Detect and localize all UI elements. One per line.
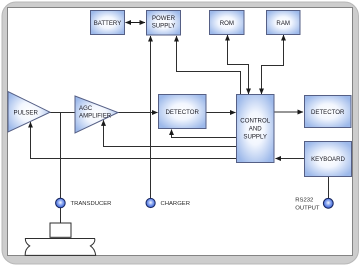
detector U6 (right) [305, 96, 352, 128]
svg-text:RAM: RAM [276, 20, 290, 27]
svg-text:TRANSDUCER: TRANSDUCER [71, 201, 112, 207]
charger connector J2 (ball) [146, 198, 190, 207]
wire transducer tap [60, 113, 62, 199]
svg-text:RS232: RS232 [295, 197, 313, 203]
wire ram-control [262, 35, 284, 94]
wire detector-control [206, 112, 236, 114]
svg-text:KEYBOARD: KEYBOARD [311, 156, 345, 163]
svg-text:AND: AND [249, 125, 262, 132]
wire control-pulser supply [31, 122, 237, 158]
svg-text:AMPLIFIER: AMPLIFIER [79, 112, 112, 119]
detector U4 (left) [159, 95, 207, 129]
wire keyboard-rs232 [328, 177, 330, 199]
wire powersupply-control [177, 36, 241, 95]
pulser amplifier A1 (triangle) [8, 92, 50, 133]
rs232 connector J3 (ball) [295, 197, 333, 211]
wire powersupply-charger [150, 36, 152, 198]
svg-text:AGC: AGC [79, 105, 93, 112]
control and supply U5 [237, 95, 275, 163]
power supply U1 [147, 11, 181, 36]
svg-text:PULSER: PULSER [14, 110, 39, 117]
wire control-detector2 [274, 111, 303, 113]
wire battery-powersupply (bidirectional) [126, 22, 146, 24]
test material block (with break edges) [25, 239, 96, 256]
svg-text:BATTERY: BATTERY [94, 20, 122, 27]
svg-text:OUTPUT: OUTPUT [295, 205, 320, 211]
wire control-agc supply [104, 120, 237, 146]
ram U3 [267, 11, 301, 35]
agc amplifier A2 (triangle) [75, 96, 118, 133]
svg-text:SUPPLY: SUPPLY [152, 22, 176, 29]
wire pulser-agc [50, 112, 76, 114]
wire transducer-probe [60, 208, 62, 223]
svg-text:ROM: ROM [220, 20, 234, 27]
svg-text:DETECTOR: DETECTOR [165, 109, 199, 116]
svg-text:POWER: POWER [152, 15, 176, 22]
svg-text:CHARGER: CHARGER [161, 201, 190, 207]
svg-text:CONTROL: CONTROL [240, 117, 270, 124]
wire rom-control [228, 35, 249, 94]
svg-text:SUPPLY: SUPPLY [243, 133, 267, 140]
wire keyboard-control [276, 158, 305, 160]
transducer probe head [50, 223, 71, 237]
transducer connector J1 (ball) [56, 198, 112, 208]
wire agc-detector [118, 112, 158, 114]
wire control-detector supply [172, 130, 237, 138]
battery B1 [91, 11, 125, 35]
rom U2 [210, 11, 245, 35]
svg-text:DETECTOR: DETECTOR [311, 109, 345, 116]
keyboard U7 [305, 142, 352, 177]
